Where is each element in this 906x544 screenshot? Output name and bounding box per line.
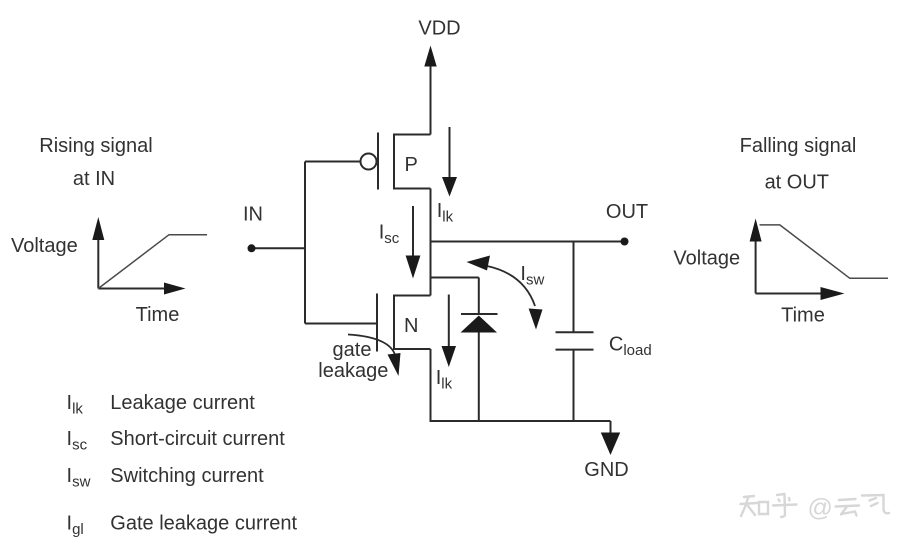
svg-text:at IN: at IN [73, 168, 115, 190]
svg-text:Voltage: Voltage [11, 235, 78, 257]
svg-text:Gate leakage current: Gate leakage current [110, 513, 297, 535]
svg-text:Time: Time [136, 304, 180, 326]
svg-text:Time: Time [781, 305, 825, 327]
svg-text:Leakage current: Leakage current [110, 392, 255, 414]
svg-text:Rising signal: Rising signal [39, 135, 152, 157]
svg-text:leakage: leakage [318, 360, 388, 382]
svg-text:@: @ [808, 494, 833, 522]
svg-text:at OUT: at OUT [765, 172, 829, 194]
svg-text:Short-circuit current: Short-circuit current [110, 428, 285, 450]
svg-text:Falling signal: Falling signal [740, 135, 857, 157]
svg-text:P: P [405, 154, 418, 176]
svg-text:VDD: VDD [418, 18, 460, 40]
svg-text:OUT: OUT [606, 201, 648, 223]
svg-text:IN: IN [243, 204, 263, 226]
svg-text:N: N [404, 315, 418, 337]
svg-text:Switching current: Switching current [110, 465, 264, 487]
svg-text:gate: gate [333, 339, 372, 361]
svg-text:GND: GND [584, 459, 628, 481]
svg-text:Voltage: Voltage [673, 248, 740, 270]
